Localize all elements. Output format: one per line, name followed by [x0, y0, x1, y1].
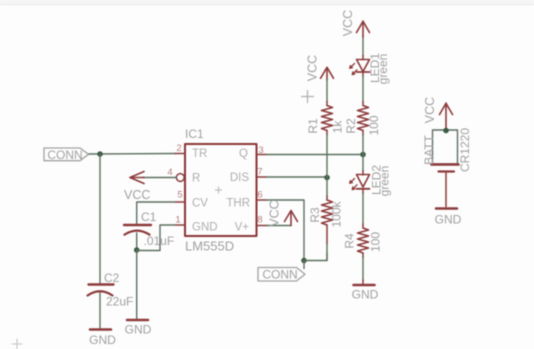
wire DIS pin 7 to R1 node — [267, 176, 328, 178]
wire junction down to C2 — [99, 154, 101, 284]
svg-text:VCC: VCC — [124, 188, 150, 202]
wire VCC arrow to pin 4 bubble — [143, 177, 177, 179]
wire VCC to LED1 — [362, 36, 364, 56]
svg-text:100k: 100k — [330, 200, 344, 227]
svg-text:4: 4 — [167, 167, 172, 178]
pin 7 DIS stub — [257, 167, 267, 178]
pin 1 GND stub — [175, 215, 185, 226]
svg-text:7: 7 — [257, 167, 262, 178]
svg-text:green: green — [378, 166, 392, 197]
svg-text:R2: R2 — [344, 118, 358, 134]
wire R2 to Q node — [362, 131, 364, 136]
wire node down to CONN flag — [303, 261, 305, 269]
power VCC arrow (battery) — [440, 103, 453, 130]
capacitor C1 .01uF — [124, 210, 174, 248]
svg-text:IC1: IC1 — [185, 127, 204, 141]
wire C1 to junction — [136, 233, 138, 250]
pin 3 Q stub — [257, 145, 267, 156]
battery BATT CR1220 — [422, 128, 472, 172]
pin 5 CV stub — [175, 190, 185, 203]
wire C2 to ground — [99, 293, 101, 328]
svg-text:THR: THR — [226, 198, 250, 210]
IC1 origin cross — [216, 187, 222, 193]
svg-text:C2: C2 — [104, 271, 120, 285]
R1 lead down to DIS node — [326, 131, 328, 136]
svg-text:1k: 1k — [331, 120, 345, 134]
origin cross near R1 — [302, 91, 314, 103]
wire node to R3 bottom — [304, 253, 327, 261]
svg-text:BATT: BATT — [422, 134, 436, 164]
svg-text:CV: CV — [192, 198, 208, 210]
power VCC arrow above R1 — [321, 67, 334, 80]
svg-text:TR: TR — [192, 148, 207, 160]
wire battery to ground — [445, 172, 447, 207]
svg-text:VCC: VCC — [423, 97, 437, 123]
ground GND below C1 — [125, 320, 152, 337]
resistor R2 100 — [344, 106, 381, 136]
svg-text:DIS: DIS — [230, 172, 250, 184]
power VCC arrow (pin 8) — [285, 211, 298, 226]
svg-text:R3: R3 — [308, 207, 322, 223]
svg-text:Q: Q — [239, 148, 248, 160]
svg-text:100: 100 — [369, 232, 383, 252]
junction node battery VCC — [443, 128, 449, 134]
R3 lead up to DIS node — [326, 177, 328, 197]
wire R4 to ground — [362, 253, 364, 258]
junction node THR / R3 / CONN — [301, 258, 307, 264]
resistor R4 100 — [343, 228, 383, 253]
svg-text:GND: GND — [89, 333, 116, 347]
wire V+ pin 8 to VCC — [267, 225, 292, 227]
ground GND below C2 — [89, 330, 116, 348]
svg-text:100: 100 — [367, 115, 381, 135]
wire junction down to ground — [136, 250, 138, 319]
VCC arrow at pin 4 (points left) — [130, 172, 144, 184]
junction node DIS / R1 / R3 — [324, 175, 330, 181]
resistor R1 1k — [306, 106, 345, 134]
stray origin cross bottom-left — [12, 339, 22, 349]
connector flag CONN (left, TR net) — [44, 148, 89, 162]
svg-text:R4: R4 — [343, 233, 357, 249]
ground GND below R4 — [352, 285, 379, 302]
svg-text:6: 6 — [257, 190, 262, 201]
svg-text:V+: V+ — [235, 222, 250, 234]
svg-text:2: 2 — [176, 143, 181, 154]
pin 6 THR stub — [257, 190, 267, 201]
svg-text:GND: GND — [125, 323, 152, 337]
wire VCC to R1 — [326, 79, 328, 102]
svg-text:.01uF: .01uF — [144, 234, 175, 248]
junction node Q / R2 / LED2 — [360, 152, 366, 158]
faint top edge band — [0, 0, 534, 4]
svg-text:CONN: CONN — [262, 268, 297, 282]
svg-text:VCC: VCC — [268, 200, 282, 226]
LED LED2 green — [350, 165, 392, 197]
wire LED1 to R2 — [362, 72, 364, 77]
wire LED2 to R4 — [362, 189, 364, 194]
svg-text:C1: C1 — [141, 210, 157, 224]
svg-text:GND: GND — [352, 288, 379, 302]
svg-text:CR1220: CR1220 — [458, 128, 472, 172]
svg-text:VCC: VCC — [341, 10, 355, 36]
svg-text:8: 8 — [257, 215, 262, 226]
pin 2 TR stub — [175, 143, 185, 154]
capacitor C2 22uF — [88, 271, 134, 309]
svg-text:5: 5 — [177, 190, 182, 201]
svg-text:22uF: 22uF — [106, 295, 133, 309]
svg-text:GND: GND — [192, 222, 218, 234]
wire CV pin 5 to C1 — [137, 202, 175, 224]
pin 4 R inverter bubble — [167, 167, 184, 181]
op-amp/timer IC1 LM555D body — [185, 127, 257, 254]
wire junction to IC GND pin 1 — [137, 225, 175, 251]
svg-text:LM555D: LM555D — [185, 239, 234, 254]
svg-text:CONN: CONN — [47, 148, 82, 162]
connector flag CONN (bottom, THR net) — [258, 268, 305, 282]
svg-text:VCC: VCC — [306, 55, 320, 81]
ground GND battery — [435, 209, 462, 227]
wire Q node down to LED2 — [362, 155, 364, 172]
wire CONN to TR pin 2 — [89, 153, 175, 156]
wire Q pin 3 to LED2 node — [267, 154, 364, 156]
svg-text:GND: GND — [435, 213, 462, 227]
svg-text:green: green — [376, 54, 390, 85]
junction node TR / C2 — [97, 151, 103, 157]
svg-text:R1: R1 — [306, 118, 320, 134]
junction node C1 / IC GND — [134, 247, 140, 253]
svg-text:3: 3 — [258, 145, 263, 156]
power VCC arrow above LED1 — [357, 21, 370, 37]
svg-text:1: 1 — [175, 215, 180, 226]
wire THR pin 6 route — [267, 200, 305, 261]
svg-text:R: R — [192, 173, 200, 185]
R3 lead down to THR wire — [326, 225, 328, 244]
pin 8 V+ stub — [257, 215, 267, 226]
resistor R3 100k — [308, 200, 344, 228]
LED LED1 green — [350, 53, 390, 85]
